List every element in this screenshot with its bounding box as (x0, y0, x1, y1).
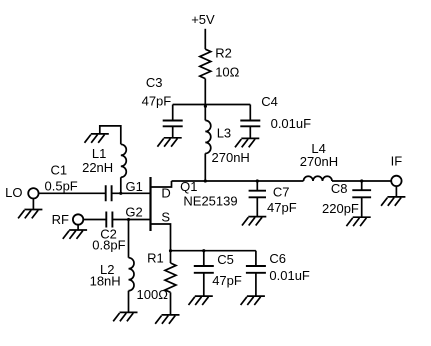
node C5 junction (202, 249, 205, 252)
ground C8 (346, 217, 370, 226)
svg-text:R1: R1 (147, 250, 164, 265)
svg-text:10Ω: 10Ω (215, 65, 239, 80)
port LO (28, 188, 38, 198)
wire G2 node to L2 (128, 220, 130, 258)
wire +5V to R2 (204, 29, 206, 49)
wire S node to R1 (170, 251, 172, 263)
node R2/rail junction (204, 105, 207, 108)
svg-text:0.8pF: 0.8pF (92, 237, 125, 252)
svg-text:47pF: 47pF (142, 94, 172, 109)
ground RF (63, 230, 87, 239)
svg-text:G2: G2 (125, 204, 142, 219)
wire ground to L1 (100, 126, 121, 144)
svg-text:RF: RF (52, 212, 69, 227)
capacitor C1 (106, 185, 112, 201)
ground C3 (157, 138, 181, 147)
svg-text:270nH: 270nH (212, 150, 250, 165)
wire drain node to L4 (172, 180, 304, 182)
resistor R2 (200, 49, 211, 78)
svg-text:IF: IF (391, 153, 403, 168)
ground C5 (189, 296, 213, 305)
wire RF port stub (77, 225, 79, 230)
Q1 drain lead (151, 181, 172, 187)
ground C4 (235, 138, 259, 147)
svg-text:L1: L1 (92, 146, 106, 161)
wire source node row (171, 250, 256, 252)
svg-text:+5V: +5V (191, 12, 215, 27)
port IF (391, 176, 401, 186)
capacitor C7 (249, 181, 266, 217)
node R1 junction (169, 249, 172, 252)
capacitor C4 (240, 105, 260, 139)
svg-text:S: S (161, 209, 170, 224)
svg-text:NE25139: NE25139 (183, 194, 237, 209)
wire LO to C1 (39, 192, 106, 194)
inductor L2 (129, 258, 135, 291)
capacitor C3 (163, 105, 183, 138)
transistor Q1 channel bar (149, 177, 151, 231)
svg-text:0.01uF: 0.01uF (269, 268, 310, 283)
capacitor C5 (194, 251, 214, 296)
svg-text:C4: C4 (261, 94, 278, 109)
wire C2 to G2 (112, 219, 150, 221)
ground L1 top (85, 134, 109, 143)
svg-text:C5: C5 (217, 252, 234, 267)
node L1/G1 junction (119, 192, 122, 195)
capacitor C6 (246, 251, 266, 296)
wire R2 to bypass rail (204, 79, 206, 105)
wire bypass rail C3-C4 (173, 104, 251, 106)
capacitor C8 (352, 181, 371, 217)
wire L1 to G1 node (120, 177, 122, 193)
wire C1 to G1 (112, 192, 151, 194)
svg-text:0.5pF: 0.5pF (45, 178, 78, 193)
svg-text:0.01uF: 0.01uF (271, 116, 312, 131)
svg-text:100Ω: 100Ω (137, 287, 169, 302)
wire R1 to ground (170, 292, 172, 315)
node C7 junction (256, 179, 259, 182)
svg-text:22nH: 22nH (82, 160, 113, 175)
wire LO port stub (32, 199, 34, 210)
ground L2 (113, 312, 137, 321)
ground LO (18, 210, 42, 219)
wire IF port stub (395, 186, 397, 197)
svg-text:C1: C1 (51, 163, 68, 178)
svg-text:C3: C3 (146, 75, 163, 90)
inductor L3 (205, 105, 211, 182)
wire L2 to ground (128, 291, 130, 313)
svg-text:R2: R2 (215, 46, 232, 61)
ground R1 (155, 315, 179, 324)
svg-text:270nH: 270nH (300, 154, 338, 169)
resistor R1 (165, 263, 176, 292)
Q1 source lead (151, 224, 171, 251)
node L3/drain junction (204, 179, 207, 182)
svg-text:G1: G1 (126, 179, 143, 194)
wire RF to C2 (83, 219, 106, 221)
svg-text:LO: LO (5, 185, 22, 200)
node G2/L2 junction (127, 218, 130, 221)
node C8 junction (360, 179, 363, 182)
inductor L1 (121, 144, 127, 177)
svg-text:220pF: 220pF (322, 201, 359, 216)
svg-text:C6: C6 (269, 251, 286, 266)
svg-text:C7: C7 (273, 185, 290, 200)
svg-text:18nH: 18nH (90, 273, 121, 288)
port RF (73, 214, 83, 224)
svg-text:L3: L3 (217, 125, 231, 140)
ground C6 (241, 296, 265, 305)
svg-text:47pF: 47pF (212, 273, 242, 288)
ground C7 (242, 217, 266, 226)
ground IF (381, 197, 405, 206)
svg-text:D: D (161, 185, 170, 200)
capacitor C2 (106, 212, 112, 228)
wire L4 to IF (332, 180, 391, 182)
inductor L4 (304, 176, 333, 181)
svg-text:C8: C8 (331, 181, 348, 196)
svg-text:47pF: 47pF (267, 200, 297, 215)
